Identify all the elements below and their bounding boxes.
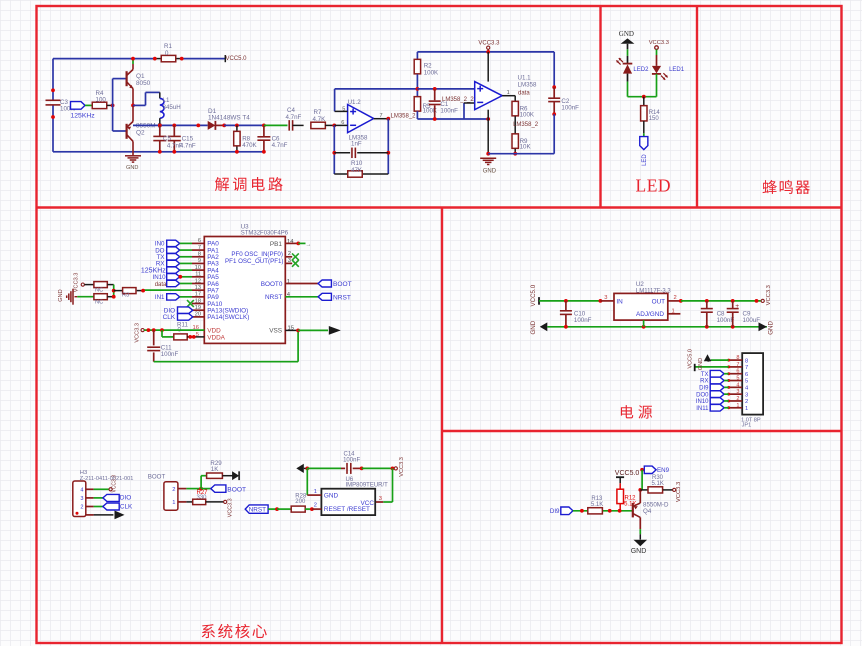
- svg-text:1N4148WS T4: 1N4148WS T4: [208, 114, 250, 121]
- svg-text:100nF: 100nF: [574, 317, 592, 324]
- svg-text:R3: R3: [122, 293, 129, 299]
- svg-text:100nF: 100nF: [343, 457, 360, 463]
- svg-text:4: 4: [736, 382, 739, 388]
- svg-text:345uH: 345uH: [163, 104, 181, 111]
- svg-text:8: 8: [736, 355, 739, 361]
- svg-text:100nF: 100nF: [161, 351, 179, 358]
- svg-text:4: 4: [80, 487, 83, 493]
- svg-text:Q2: Q2: [136, 130, 145, 137]
- svg-text:Q4: Q4: [643, 508, 652, 515]
- svg-text:VCC3.3: VCC3.3: [74, 273, 80, 293]
- svg-text:2: 2: [736, 396, 739, 402]
- svg-text:125KHz: 125KHz: [71, 113, 96, 120]
- svg-text:8050: 8050: [136, 80, 151, 87]
- svg-text:data: data: [155, 282, 167, 288]
- svg-text:VCC3.3: VCC3.3: [649, 40, 669, 46]
- svg-text:VCC3.3: VCC3.3: [676, 482, 682, 502]
- svg-text:PF1 OSC_OUT(PF1): PF1 OSC_OUT(PF1): [225, 258, 283, 265]
- svg-text:10K: 10K: [520, 144, 532, 151]
- svg-text:7: 7: [736, 362, 739, 368]
- svg-text:LM358: LM358: [518, 81, 537, 88]
- svg-text:3: 3: [80, 496, 83, 502]
- svg-text:1: 1: [172, 500, 175, 506]
- svg-text:STM32F030F4P6: STM32F030F4P6: [241, 231, 289, 237]
- svg-text:3: 3: [736, 389, 739, 395]
- svg-text:12: 12: [195, 278, 201, 284]
- svg-text:6: 6: [198, 238, 201, 244]
- svg-text:6: 6: [745, 372, 748, 378]
- svg-text:VCC3.3: VCC3.3: [478, 40, 500, 46]
- svg-text:GND: GND: [530, 320, 537, 334]
- svg-text:3: 3: [745, 392, 748, 398]
- svg-text:GND: GND: [126, 165, 138, 171]
- svg-text:1: 1: [507, 90, 510, 96]
- svg-text:LED1: LED1: [669, 67, 685, 73]
- svg-text:GND: GND: [768, 321, 775, 335]
- svg-text:IN11: IN11: [696, 406, 709, 412]
- svg-text:4.7nF: 4.7nF: [180, 143, 196, 150]
- svg-text:GND: GND: [619, 30, 634, 38]
- svg-text:R1: R1: [164, 43, 172, 50]
- svg-text:R7: R7: [314, 109, 322, 116]
- svg-text:U3: U3: [241, 224, 249, 231]
- svg-text:100nF: 100nF: [561, 105, 579, 112]
- svg-text:5: 5: [736, 376, 739, 382]
- svg-text:VDDA: VDDA: [207, 334, 225, 341]
- svg-text:18: 18: [195, 298, 201, 304]
- svg-text:DI9: DI9: [550, 508, 560, 515]
- svg-text:IN1: IN1: [155, 294, 165, 301]
- svg-text:7: 7: [380, 113, 383, 119]
- svg-text:LM1117F-3.3: LM1117F-3.3: [636, 289, 671, 295]
- svg-text:ADJ/GND: ADJ/GND: [636, 311, 664, 318]
- svg-text:C5: C5: [163, 136, 171, 143]
- svg-text:TX: TX: [701, 372, 709, 378]
- svg-text:17: 17: [195, 292, 201, 298]
- svg-text:+: +: [735, 303, 739, 310]
- svg-text:NC: NC: [95, 300, 103, 306]
- svg-text:DO0: DO0: [696, 392, 709, 398]
- svg-text:GND: GND: [483, 168, 497, 174]
- svg-text:LED: LED: [636, 176, 672, 196]
- svg-text:VCC3.3: VCC3.3: [399, 457, 405, 477]
- svg-text:Z-211-0411-0021-001: Z-211-0411-0021-001: [80, 476, 134, 482]
- svg-text:2: 2: [80, 505, 83, 511]
- svg-text:VCC5.0: VCC5.0: [226, 56, 248, 62]
- svg-text:PA14(SWCLK): PA14(SWCLK): [207, 314, 249, 321]
- svg-text:100K: 100K: [423, 108, 438, 115]
- svg-text:data: data: [518, 90, 530, 96]
- svg-text:BOOT: BOOT: [148, 474, 166, 481]
- svg-text:R10: R10: [351, 160, 363, 167]
- svg-text:NRST: NRST: [265, 294, 282, 301]
- svg-text:VSS: VSS: [269, 327, 282, 334]
- svg-text:IN10: IN10: [696, 399, 709, 405]
- svg-text:7: 7: [745, 365, 748, 371]
- svg-text:LED2: LED2: [633, 67, 649, 73]
- svg-text:LM358_2: LM358_2: [513, 122, 539, 128]
- svg-text:4.7nF: 4.7nF: [286, 114, 302, 121]
- svg-text:2: 2: [172, 487, 175, 493]
- svg-text:100: 100: [96, 97, 107, 104]
- svg-text:11: 11: [195, 272, 201, 278]
- svg-text:→: →: [306, 242, 312, 248]
- svg-text:3: 3: [379, 496, 382, 502]
- svg-text:1K: 1K: [211, 466, 219, 473]
- svg-text:1nF: 1nF: [351, 141, 362, 148]
- svg-text:8: 8: [198, 252, 201, 258]
- svg-text:JP1: JP1: [742, 423, 752, 429]
- svg-text:20: 20: [195, 312, 201, 318]
- svg-text:NC: NC: [95, 288, 103, 294]
- svg-text:100K: 100K: [520, 112, 535, 119]
- svg-text:BOOT0: BOOT0: [261, 281, 283, 288]
- svg-text:VCC3.3: VCC3.3: [228, 498, 234, 517]
- svg-text:IN: IN: [616, 298, 623, 305]
- svg-text:GND: GND: [631, 548, 647, 555]
- svg-text:0: 0: [165, 50, 169, 57]
- svg-text:10: 10: [195, 265, 201, 271]
- svg-text:OUT: OUT: [652, 298, 666, 305]
- svg-text:150: 150: [649, 116, 660, 122]
- svg-text:5.1K: 5.1K: [652, 481, 664, 487]
- svg-text:1: 1: [745, 406, 748, 412]
- svg-text:8: 8: [745, 358, 748, 364]
- svg-text:LM358_2: LM358_2: [391, 114, 417, 120]
- svg-text:9: 9: [198, 258, 201, 264]
- svg-text:U1.2: U1.2: [348, 99, 362, 106]
- svg-text:13: 13: [195, 285, 201, 291]
- svg-text:2: 2: [314, 503, 317, 509]
- svg-text:GND: GND: [698, 358, 704, 370]
- svg-text:LM358_2_2: LM358_2_2: [442, 97, 474, 103]
- svg-text:470K: 470K: [242, 142, 257, 149]
- svg-text:NRST: NRST: [333, 295, 351, 302]
- svg-text:CLK: CLK: [163, 314, 176, 321]
- svg-text:NRST: NRST: [249, 507, 266, 514]
- svg-text:100nF: 100nF: [717, 317, 735, 324]
- svg-text:4.7nF: 4.7nF: [272, 142, 288, 149]
- svg-text:19: 19: [195, 305, 201, 311]
- svg-text:BOOT: BOOT: [227, 486, 246, 493]
- svg-text:4.7K: 4.7K: [313, 116, 327, 123]
- svg-text:1: 1: [736, 403, 739, 409]
- svg-text:1: 1: [314, 489, 317, 495]
- svg-text:DIO: DIO: [120, 495, 131, 502]
- svg-text:3: 3: [604, 295, 607, 301]
- svg-text:R2: R2: [424, 63, 432, 70]
- svg-text:BOOT: BOOT: [333, 281, 352, 288]
- svg-text:IN10: IN10: [153, 274, 167, 281]
- svg-text:2: 2: [674, 295, 677, 301]
- svg-text:RX: RX: [700, 379, 708, 385]
- svg-text:DI9: DI9: [699, 386, 709, 392]
- svg-text:100uF: 100uF: [743, 317, 761, 324]
- svg-text:VCC3.3: VCC3.3: [111, 475, 117, 493]
- svg-text:7: 7: [198, 245, 201, 251]
- svg-text:100nF: 100nF: [440, 108, 458, 115]
- svg-text:CLK: CLK: [120, 503, 133, 510]
- svg-text:GND: GND: [58, 289, 64, 301]
- svg-text:5.1K: 5.1K: [591, 502, 603, 508]
- svg-text:GND: GND: [324, 493, 339, 500]
- svg-text:Q1: Q1: [136, 73, 145, 80]
- svg-text:VCC3.3: VCC3.3: [134, 323, 140, 343]
- svg-text:5: 5: [745, 379, 748, 385]
- svg-text:100K: 100K: [424, 70, 439, 77]
- svg-text:U2: U2: [636, 281, 644, 288]
- svg-text:VCC5.0: VCC5.0: [530, 284, 537, 306]
- svg-text:200: 200: [295, 499, 306, 505]
- svg-text:IMP809TEUR/T: IMP809TEUR/T: [346, 483, 389, 489]
- svg-text:47K: 47K: [351, 167, 363, 174]
- svg-text:RESET /RESET: RESET /RESET: [324, 506, 370, 513]
- svg-text:L1: L1: [163, 97, 170, 104]
- svg-text:2: 2: [745, 399, 748, 405]
- svg-text:EN9: EN9: [657, 467, 670, 474]
- svg-text:PB1: PB1: [270, 241, 283, 248]
- svg-text:VCC5.0: VCC5.0: [687, 349, 693, 369]
- svg-text:VCC5.0: VCC5.0: [615, 470, 640, 477]
- svg-text:C15: C15: [182, 135, 194, 142]
- svg-text:VCC3.3: VCC3.3: [766, 285, 772, 305]
- svg-text:LED: LED: [642, 154, 648, 166]
- svg-text:PF0 OSC_IN(PF0): PF0 OSC_IN(PF0): [231, 251, 283, 258]
- svg-text:6: 6: [736, 369, 739, 375]
